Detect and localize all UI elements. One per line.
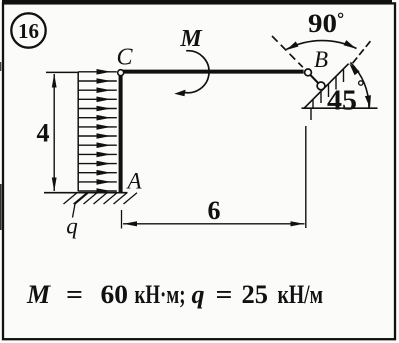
svg-text:кН·м;: кН·м; bbox=[135, 280, 186, 309]
svg-text:M: M bbox=[179, 26, 203, 52]
svg-text:25: 25 bbox=[242, 280, 269, 309]
svg-text:45: 45 bbox=[327, 86, 357, 117]
svg-text:=: = bbox=[216, 280, 233, 309]
svg-text:4: 4 bbox=[37, 119, 50, 148]
svg-text:90: 90 bbox=[308, 9, 337, 38]
svg-text:кН/м: кН/м bbox=[278, 280, 324, 309]
svg-text:16: 16 bbox=[18, 19, 39, 43]
svg-text:6: 6 bbox=[208, 196, 221, 225]
svg-text:B: B bbox=[314, 47, 328, 72]
svg-text:C: C bbox=[116, 45, 133, 71]
svg-text:A: A bbox=[125, 169, 142, 194]
svg-text:q: q bbox=[192, 280, 205, 309]
svg-text:M: M bbox=[26, 280, 51, 309]
svg-text:60: 60 bbox=[101, 280, 129, 309]
svg-text:=: = bbox=[66, 280, 83, 309]
